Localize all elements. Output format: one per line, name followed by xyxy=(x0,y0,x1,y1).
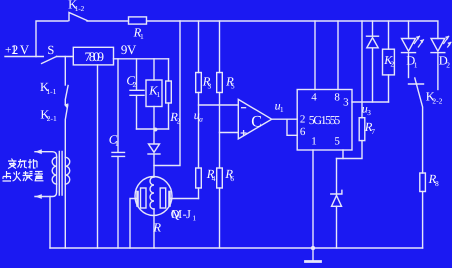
svg-text:2: 2 xyxy=(133,80,137,89)
svg-text:5: 5 xyxy=(231,81,235,90)
svg-text:S: S xyxy=(47,43,54,57)
svg-text:7809: 7809 xyxy=(85,49,105,64)
svg-text:3: 3 xyxy=(367,108,371,117)
svg-text:8: 8 xyxy=(435,179,439,188)
svg-text:2: 2 xyxy=(177,117,181,126)
svg-text:2: 2 xyxy=(446,61,450,70)
svg-text:1-2: 1-2 xyxy=(75,4,85,13)
svg-text:3: 3 xyxy=(343,97,349,109)
svg-text:5: 5 xyxy=(334,136,340,148)
svg-text:QM: QM xyxy=(171,207,183,221)
svg-text:a: a xyxy=(199,115,203,124)
svg-text:2-2: 2-2 xyxy=(432,96,442,105)
svg-text:8: 8 xyxy=(334,92,340,104)
svg-text:7: 7 xyxy=(371,127,375,136)
svg-text:1-1: 1-1 xyxy=(46,87,56,96)
svg-text:C: C xyxy=(251,114,262,131)
svg-text:6: 6 xyxy=(230,174,234,183)
svg-text:5G1555: 5G1555 xyxy=(309,113,341,127)
svg-text:6: 6 xyxy=(300,126,306,138)
svg-text:V: V xyxy=(20,42,30,57)
svg-text:1: 1 xyxy=(414,61,418,70)
svg-text:4: 4 xyxy=(311,92,317,104)
svg-text:1: 1 xyxy=(192,214,196,223)
svg-text:1: 1 xyxy=(140,32,144,41)
svg-text:-J: -J xyxy=(183,207,192,221)
svg-text:1: 1 xyxy=(115,139,119,148)
svg-text:V: V xyxy=(127,42,137,57)
svg-text:2-1: 2-1 xyxy=(47,114,57,123)
svg-text:2: 2 xyxy=(300,114,306,126)
svg-text:R: R xyxy=(152,221,161,235)
svg-text:2: 2 xyxy=(390,60,394,69)
svg-text:1: 1 xyxy=(157,90,161,99)
svg-text:12: 12 xyxy=(11,42,18,57)
svg-text:4: 4 xyxy=(212,174,216,183)
svg-text:1: 1 xyxy=(280,105,284,114)
svg-text:3: 3 xyxy=(208,81,212,90)
svg-text:1: 1 xyxy=(311,136,317,148)
